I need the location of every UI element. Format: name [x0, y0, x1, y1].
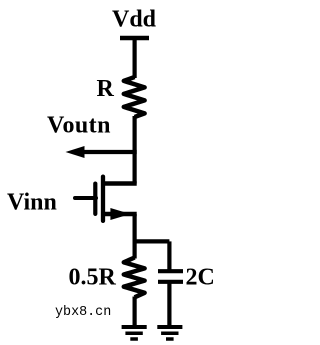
svg-text:ybx8.cn: ybx8.cn — [55, 305, 111, 320]
svg-text:R: R — [97, 76, 115, 102]
svg-text:Vinn: Vinn — [7, 190, 57, 216]
svg-text:2C: 2C — [186, 265, 215, 291]
svg-text:Voutn: Voutn — [47, 113, 111, 139]
svg-text:Vdd: Vdd — [112, 7, 157, 33]
svg-text:0.5R: 0.5R — [69, 265, 117, 291]
